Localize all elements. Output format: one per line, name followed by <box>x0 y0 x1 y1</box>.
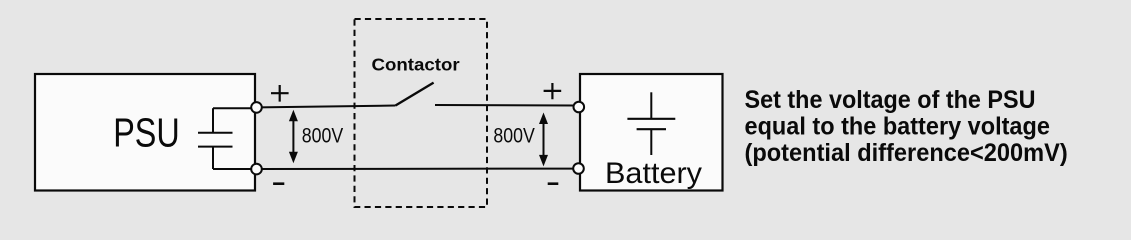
label 800V (battery side) <box>493 123 535 148</box>
svg-text:equal to the battery voltage: equal to the battery voltage <box>745 113 1050 141</box>
svg-text:Battery: Battery <box>605 157 702 190</box>
annotation text <box>745 86 1068 167</box>
capacitor (PSU output cap) <box>198 108 255 169</box>
dimension arrow 800V (PSU side) <box>289 110 298 164</box>
polarity label − (battery side) <box>548 182 559 185</box>
polarity label − (PSU side) <box>273 182 284 185</box>
svg-text:PSU: PSU <box>113 110 180 156</box>
svg-text:Set the voltage of the PSU: Set the voltage of the PSU <box>745 86 1036 114</box>
label Contactor <box>372 55 460 75</box>
dimension arrow 800V (battery side) <box>539 113 548 167</box>
polarity label + (battery side) <box>544 83 562 99</box>
PSU box <box>35 74 255 191</box>
battery box <box>580 74 723 191</box>
svg-text:(potential difference<200mV): (potential difference<200mV) <box>745 139 1068 167</box>
svg-text:800V: 800V <box>302 123 344 148</box>
node: PSU − terminal <box>251 164 262 175</box>
contactor enclosure (dashed box) <box>355 19 488 207</box>
label PSU <box>113 110 180 156</box>
svg-text:Contactor: Contactor <box>372 55 460 75</box>
switch blade (contactor, open) <box>396 83 434 106</box>
wire: contactor fixed contact to battery+ <box>435 104 576 107</box>
node: PSU + terminal <box>251 102 262 113</box>
label Battery <box>605 157 702 190</box>
node: battery + terminal <box>574 102 585 113</box>
polarity label + (PSU side) <box>271 85 289 102</box>
node: battery − terminal <box>573 163 584 174</box>
wire: PSU+ to contactor pivot <box>259 106 396 108</box>
wire: PSU− to battery− (bottom rail) <box>259 168 577 170</box>
battery cell symbol <box>627 92 675 155</box>
label 800V (PSU side) <box>302 123 344 148</box>
svg-text:800V: 800V <box>493 123 535 148</box>
